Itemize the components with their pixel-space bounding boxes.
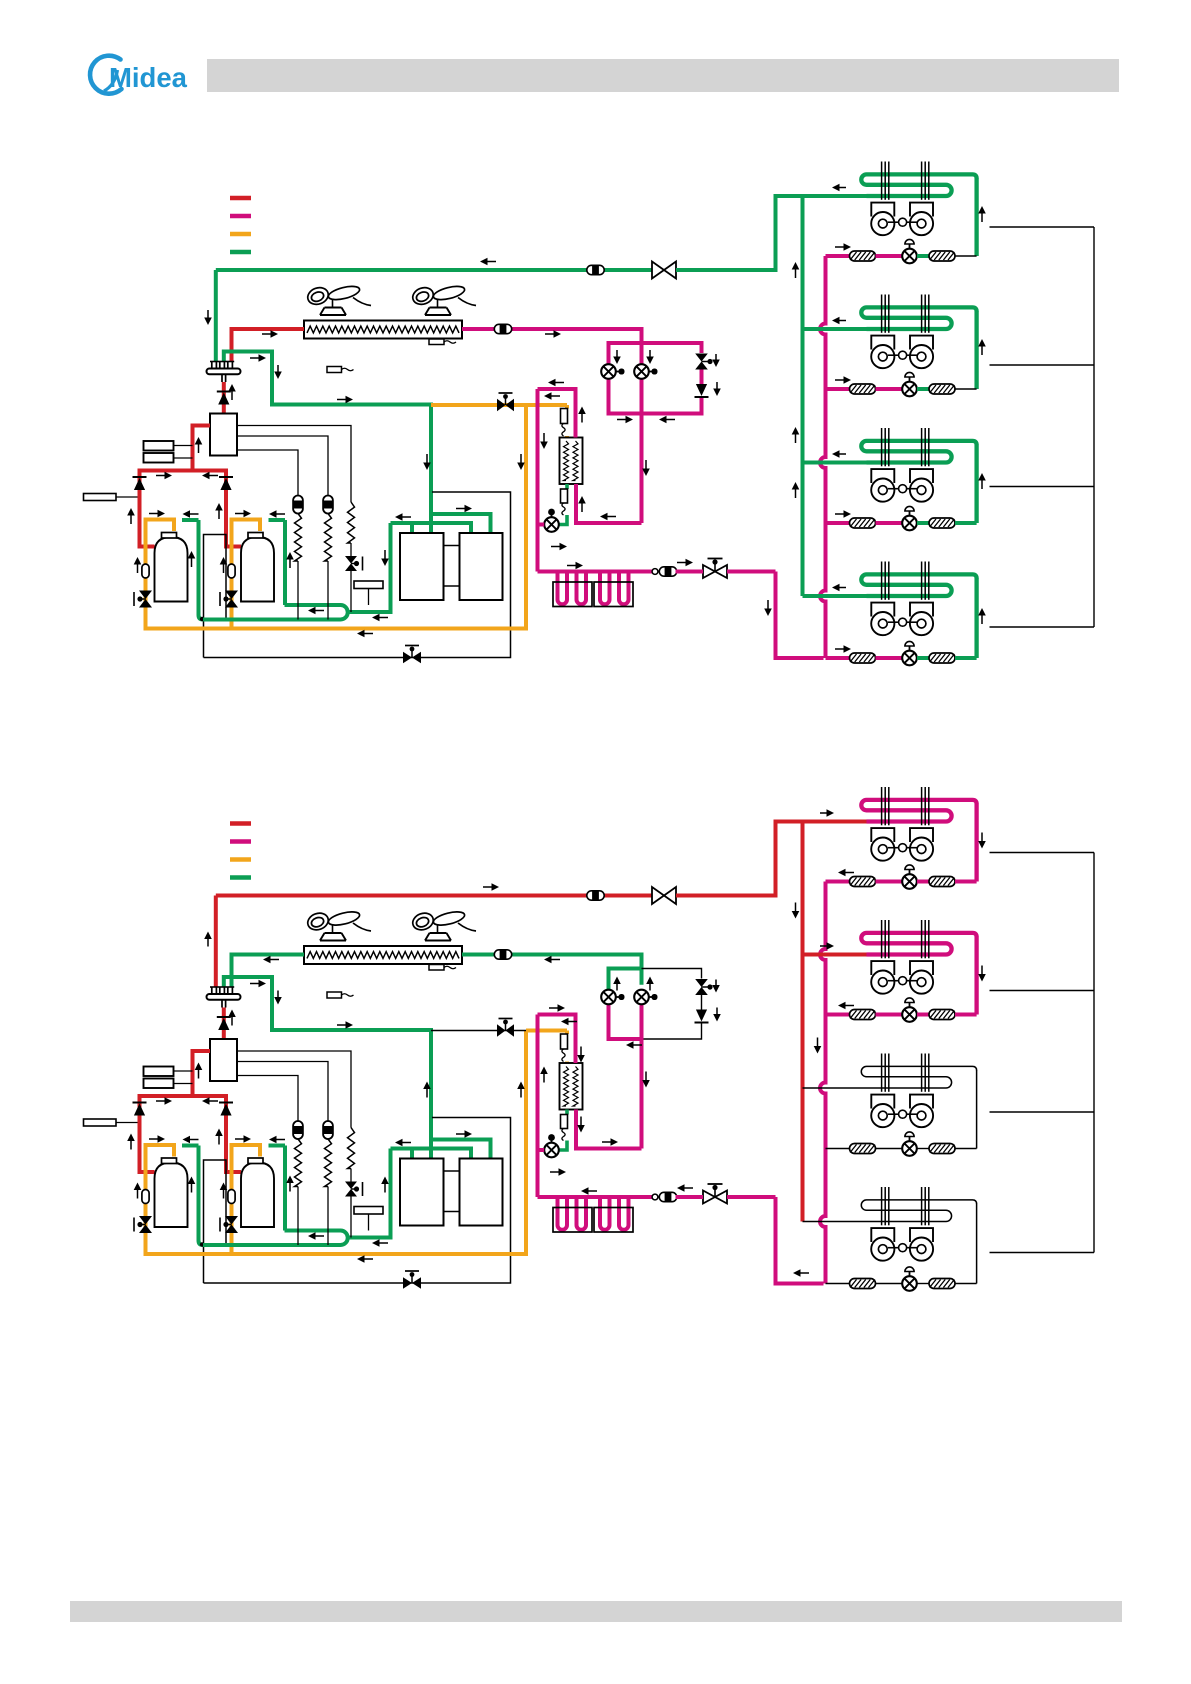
flow arrow [223,564,225,574]
wire plate HX interconnect [444,1170,460,1172]
strainer (filter) right [929,877,955,887]
wire liquid line through coils [538,570,653,574]
junction node [200,1242,204,1246]
temperature sensor [327,992,342,998]
wire EEV to strainer right [917,880,929,884]
wire oil separator inlet (red) [193,426,211,471]
electronic expansion valve EEV [902,382,917,397]
flow arrow [716,1008,718,1016]
check valve compressor 1 [133,476,147,478]
header Midea logo [90,56,188,94]
flow arrow [981,480,983,490]
flow arrow [277,365,279,373]
compressor body [241,1163,274,1228]
wire EEV branch from liquid header [826,1148,850,1150]
strainer (filter) right [929,518,955,528]
indoor heat-exchanger serpentine coil [861,441,976,463]
wire EEV bridge bottom (magenta) [609,1003,642,1040]
flow arrow [839,187,847,189]
indoor coil distribution tubes [881,162,883,200]
oil balance line box [204,535,227,658]
indoor fan pair (double blower) [871,1095,894,1109]
wire manifold port 1 [410,523,414,533]
indoor coil distribution tubes [881,1187,883,1225]
high pressure switch [144,1067,174,1077]
indoor coil distribution tubes [881,920,883,958]
wire EEV branch from liquid header [826,254,850,258]
compressor terminal cap [248,1158,263,1164]
wire EEV to liquid header (magenta) [538,1148,545,1152]
wire EEV bridge top (green) [609,969,642,992]
wire liquid line through coils [538,1195,653,1199]
flow arrow [835,648,845,650]
wire oil line 3 [237,450,298,496]
wire strainer to EEV [876,1283,903,1285]
strainer (filter) right [929,251,955,261]
wire indoor-unit connect line y=329 [803,327,867,331]
outdoor fan 2 [437,924,439,933]
flow arrow [315,610,325,612]
oil return coil 3 [348,502,355,543]
flow arrow [156,1100,166,1102]
flow arrow [130,1140,132,1150]
legend line 1 [230,196,251,201]
flow arrow [402,1142,412,1144]
flow arrow [543,433,545,443]
flow arrow [276,513,286,515]
wire EEV2 drop (magenta) [640,377,644,523]
electronic expansion valve EEV [902,651,917,666]
flow arrow [364,1258,374,1260]
flow arrow [235,1138,245,1140]
subcooler EEV [544,517,559,532]
heating coil box 1 [553,582,592,607]
wire bridge valves vertical (magenta) [700,369,704,384]
flow arrow [520,1088,522,1098]
flow arrow [835,379,845,381]
outdoor fan 1 [332,299,334,308]
wire oil return manifold (orange) [232,1145,261,1157]
wire indoor liquid header vertical (magenta) [820,256,826,658]
flow arrow [207,938,209,947]
heating coil box 2 [594,582,633,607]
flow arrow [364,633,374,635]
wire switch lead [174,457,193,459]
wire red drop to compressor 1 [140,1117,155,1173]
legend line 4 [230,875,251,880]
wire capillary 2 drop [327,561,329,620]
electronic expansion valve EEV [902,1141,917,1156]
wire indoor gas header vertical [801,822,805,1222]
junction node [200,617,204,621]
flow arrow [795,903,797,913]
plate heat exchanger 2 [460,533,503,600]
wire strainer to EEV [876,880,903,884]
bridge check valve [696,1010,707,1022]
flow arrow [426,454,428,464]
wire strainer to EEV [876,254,903,258]
wire switch lead [174,1083,193,1085]
wire strainer to coil [955,388,977,390]
sight glass [228,564,235,578]
indoor coil distribution tubes [881,787,883,825]
flow arrow [616,983,618,991]
bridge service valve [695,354,708,362]
wire oil line 1 [237,426,351,503]
bridge EEV 2 [634,364,649,379]
indoor coil distribution tubes [881,295,883,333]
wire suction header to plate HX (green) [348,523,391,612]
heating coil box 1 [553,1208,592,1233]
high pressure switch 2 [144,453,174,463]
wire discharge manifold (red) [140,1096,227,1117]
wire suction elbow (green) [182,1144,199,1148]
wire HX to manifold (green) [232,955,305,988]
indoor coil return pipe (right vertical) [974,578,978,658]
wire HX outlet pipe [462,955,642,985]
wire EEV branch from liquid header [826,521,850,525]
flow arrow [684,1187,694,1189]
wire bridge valves vertical (black) [701,995,703,1010]
gas pipe filter [587,265,604,274]
subcooler EEV [544,1143,559,1158]
oil service valve [139,1216,152,1225]
wire manifold port 1 [410,1149,414,1159]
wire green manifold upper [431,514,491,533]
wire suction pipe compressor 1 (green) [199,1146,204,1246]
strainer (filter) left [850,1144,876,1154]
indoor coil return pipe (right vertical) [974,311,978,389]
compressor body [155,537,188,602]
bridge check valve [696,384,707,396]
wire EEV bridge bottom right (black) [642,1024,702,1040]
wire indoor gas header vertical [801,196,805,596]
wire strainer to coil [955,1148,977,1150]
flow arrow [839,453,847,455]
indoor coil distribution tubes [881,428,883,466]
indoor heat-exchanger serpentine coil [861,574,976,596]
wire strainer to coil [955,255,977,257]
flow arrow [617,419,627,421]
flow arrow [289,1182,291,1192]
wire orange to bottom header [144,1204,148,1257]
wire manifold port 2 [429,514,433,533]
flow arrow [835,246,845,248]
check valve compressor 1 [133,1102,147,1104]
flow arrow [580,1117,582,1127]
flow arrow [384,1183,386,1193]
oil solenoid valve [345,1182,357,1190]
wire oil feed line (orange) [431,403,567,407]
wire liquid line out [676,1195,704,1199]
wire EEV bridge main vertical (magenta) [640,359,644,366]
flow arrow [149,1138,159,1140]
wire orange into subcooler [565,1062,569,1065]
flow arrow [223,1189,225,1199]
flow arrow [231,391,233,401]
indoor heat-exchanger serpentine coil [861,933,976,955]
flow arrow [649,983,651,991]
capillary restrictor [561,409,568,424]
wire red drop to compressor 1 [140,491,155,547]
wire EEV bridge top right (black) [642,969,702,979]
indoor fan pair (double blower) [871,336,894,350]
flow arrow [820,812,828,814]
indoor fan pair (double blower) [871,961,894,975]
wire EEV to liquid header (magenta) [538,523,545,527]
high pressure switch 2 [144,1079,174,1089]
compressor terminal cap [162,1158,177,1164]
wire suction header (green capsule) [203,1231,348,1246]
gas line shutoff valve [652,262,676,279]
electronic expansion valve EEV [902,874,917,889]
flow arrow [981,615,983,625]
wire orange drop to subcooler [565,1031,569,1035]
wire plate HX interconnect [444,545,460,547]
wire strainer to EEV [876,1013,903,1017]
flow arrow [189,1139,199,1141]
flow arrow [250,357,260,359]
wire subcooler right drop (magenta) [576,484,642,523]
indoor fan pair (double blower) [871,203,894,217]
flow arrow [845,1005,855,1007]
oil drain valve [403,652,412,664]
strainer (filter) right [929,1279,955,1289]
flow arrow [218,1135,220,1145]
flow arrow [207,310,209,319]
indoor unit casing lines [990,853,1095,1253]
wire strainer to coil [955,1013,977,1017]
flow arrow [156,475,166,477]
flow arrow [795,269,797,279]
wire EEV2 drop (magenta) [640,1003,644,1149]
wire main gas pipe [216,268,652,272]
liquid line filter [659,1192,676,1201]
oil return coil 3 [348,1128,355,1169]
flow arrow [189,513,199,515]
indoor heat-exchanger serpentine coil [861,1200,976,1222]
indoor fan pair (double blower) [871,469,894,483]
flow arrow [649,350,651,358]
flow arrow [607,516,617,518]
compressor body [241,537,274,602]
indoor heat-exchanger serpentine coil [861,174,976,196]
gas distributor manifold [211,987,213,994]
flow arrow [839,587,847,589]
wire strainer to EEV [876,1148,903,1150]
wire orange service line [144,1145,148,1190]
wire oil valve drop [350,571,352,612]
flow arrow [981,833,983,843]
wire EEV branch from liquid header [826,656,850,660]
strainer (filter) left [850,1010,876,1020]
wire manifold stub 1 [214,896,218,988]
wire liquid header drop (magenta) [536,1015,540,1198]
flow arrow [191,1183,193,1193]
inline filter [494,950,511,959]
flow arrow [551,395,561,397]
strainer (filter) left [850,877,876,887]
legend line 4 [230,250,251,255]
wire red riser to manifold [222,1008,226,1040]
flow arrow [545,333,555,335]
oil return capillary 2 [323,1121,333,1139]
check valve (discharge) [217,1016,231,1018]
oil return capillary 2 [323,496,333,514]
flow arrow [270,959,280,961]
flow arrow [677,562,687,564]
wire orange to bottom header [230,578,234,631]
liquid line shutoff valve [703,565,727,578]
oil separator [210,1039,237,1081]
strainer (filter) right [929,1144,955,1154]
wire subcooler right drop (magenta) [576,1110,642,1149]
wire oil bottom header (orange) [146,1031,527,1255]
indoor coil distribution tubes [881,1054,883,1092]
oil service valve [139,591,152,600]
flow arrow [231,1016,233,1026]
sight glass [142,564,149,578]
oil level switch [354,1207,383,1215]
plate heat exchanger 1 [400,533,444,600]
electronic expansion valve EEV [902,516,917,531]
electronic expansion valve EEV [902,1276,917,1291]
flow arrow [820,945,828,947]
flow arrow [289,559,291,569]
electronic expansion valve EEV [902,249,917,264]
indoor fan pair (double blower) [871,828,894,842]
wire suction header (green capsule) [203,605,348,620]
temperature sensor [327,367,342,373]
flow arrow [800,1272,810,1274]
check valve (discharge) [217,391,231,393]
flow arrow [520,454,522,464]
wire green manifold lower [391,1149,472,1159]
liquid line connector [652,569,658,575]
wire oil bottom header (orange) [146,405,527,629]
flow arrow [981,213,983,223]
flow arrow [981,966,983,976]
wire EEV bridge bottom (magenta) [609,377,702,414]
bridge EEV 1 [601,364,616,379]
wire EEV to strainer right [917,1148,929,1150]
flow arrow [426,1088,428,1098]
flow arrow [767,600,769,610]
oil pressure regulator [84,1119,117,1126]
oil return capillary 1 [293,496,303,514]
indoor coil return pipe (right vertical) [976,1204,978,1284]
flow arrow [581,503,583,513]
sight glass [142,1190,149,1204]
flow arrow [402,516,412,518]
indoor unit casing lines [990,227,1095,627]
strainer (filter) left [850,384,876,394]
oil service valve [225,1216,238,1225]
indoor coil return pipe (right vertical) [974,445,978,524]
wire strainer to coil [955,521,977,525]
flow arrow [456,1133,466,1135]
wire suction header to plate HX (green) [348,1149,391,1238]
legend line 3 [230,857,251,862]
flow arrow [555,382,565,384]
wire indoor-unit connect line y=1221.5 [803,1221,867,1223]
wire strainer to coil [955,656,977,660]
check valve compressor 2 [219,1102,233,1104]
flow arrow [337,399,347,401]
wire subcooler out (green) [565,1110,569,1115]
flow arrow [551,546,561,548]
wire manifold port 2 [429,1140,433,1159]
flow arrow [137,1189,139,1199]
strainer (filter) right [929,653,955,663]
indoor heat-exchanger serpentine coil [861,307,976,329]
wire strainer to EEV [876,656,903,660]
wire oil line 1 [237,1051,351,1128]
wire main gas pipe [216,894,652,898]
strainer (filter) left [850,518,876,528]
high pressure switch [144,441,174,451]
header gray bar [207,59,1119,92]
wire suction pipe compressor 1 (green) [199,520,204,620]
oil solenoid valve [497,399,506,412]
wire oil line 2 [237,1062,328,1122]
flow arrow [198,444,200,454]
wire suction pipe compressor 2 (green) [283,520,287,605]
wire main gas pipe right [676,822,867,896]
capillary restrictor 2 [561,489,568,503]
flow arrow [262,333,272,335]
outdoor unit casing line [204,1118,511,1284]
indoor fan pair (double blower) [871,1228,894,1242]
wire red drop to compressor 2 [226,491,241,547]
indoor heat-exchanger serpentine coil [861,800,976,822]
oil solenoid valve [345,556,357,564]
wire EEV to strainer right [917,521,929,525]
wire capillary 2 drop [327,1187,329,1246]
legend line 2 [230,839,251,844]
flow arrow [602,1141,612,1143]
wire suction elbow (green) [269,1144,286,1148]
flow arrow [549,1007,559,1009]
flow arrow [456,508,466,510]
wire orange service line [230,520,234,565]
flow arrow [198,1069,200,1079]
wire switch lead [174,1070,193,1072]
capillary restrictor 2 [561,1115,568,1129]
gas pipe filter [587,891,604,900]
wire orange feed [526,1029,567,1033]
flow arrow [550,1171,560,1173]
inline filter [494,324,511,333]
wire indoor-unit connect line y=954.5 [803,953,867,957]
strainer (filter) left [850,251,876,261]
wire red drop to compressor 2 [226,1117,241,1173]
subcooler plate HX [560,1063,583,1110]
check valve compressor 2 [219,476,233,478]
capillary restrictor [561,1034,568,1049]
flow arrow [581,413,583,423]
wire red riser to manifold [222,382,226,414]
temperature sensor on HX [429,965,444,971]
wire subcooler loop top (magenta) [538,1015,576,1064]
flow arrow [616,350,618,358]
legend line 2 [230,214,251,219]
wire subcooler out (green) [565,484,569,489]
flow arrow [981,346,983,356]
wire oil line 3 [237,1076,298,1122]
wire EEV branch from liquid header [826,1013,850,1017]
oil balance line box [204,1160,227,1283]
